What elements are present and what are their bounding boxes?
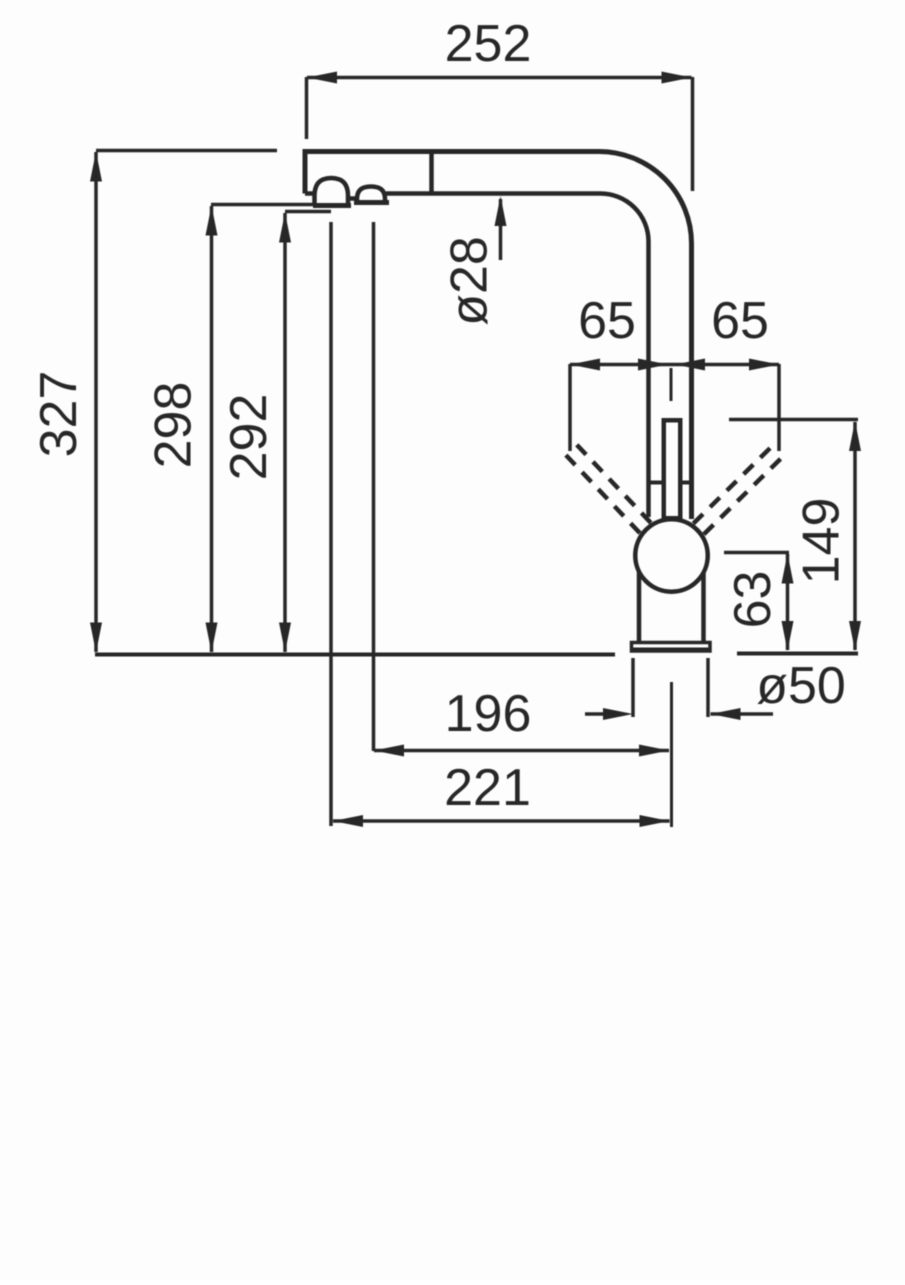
faucet spout inner profile (bottom edge, inner elbow, riser left edge) bbox=[386, 193, 649, 517]
dashed lever swung left bbox=[566, 445, 652, 534]
dia50 arrow right with leader bbox=[711, 712, 774, 716]
svg-text:65: 65 bbox=[711, 292, 769, 350]
svg-text:149: 149 bbox=[793, 498, 851, 585]
flange inner line bbox=[632, 648, 710, 650]
svg-text:65: 65 bbox=[578, 292, 636, 350]
svg-text:327: 327 bbox=[30, 371, 88, 458]
dim 149 ext top bbox=[729, 418, 858, 422]
centreline above lever bbox=[670, 368, 673, 401]
svg-text:292: 292 bbox=[220, 394, 278, 481]
bump connector bbox=[348, 196, 357, 201]
dia50 arrow left bbox=[585, 712, 605, 716]
deck line right bbox=[737, 652, 858, 656]
dim 63 line bbox=[786, 554, 790, 650]
dim 149 arrows bbox=[849, 421, 861, 651]
dim 327 line bbox=[94, 152, 98, 652]
dim 252 ext left bbox=[305, 77, 309, 139]
dim 298 ext top bbox=[211, 203, 313, 207]
dim 65 ext left bbox=[568, 364, 572, 451]
dashed lever swung right bbox=[692, 448, 780, 535]
dia50 extension line left bbox=[631, 658, 635, 717]
dim 298 line bbox=[210, 206, 214, 652]
bump large base bar bbox=[313, 203, 351, 208]
svg-text:252: 252 bbox=[445, 15, 532, 73]
svg-text:63: 63 bbox=[724, 571, 782, 629]
dim 292 ext top bbox=[285, 210, 331, 214]
dim 63 arrows bbox=[782, 554, 794, 652]
dim 63 ext top bbox=[724, 551, 789, 555]
dim 196 line bbox=[374, 749, 669, 753]
dim 221 line bbox=[333, 819, 670, 823]
dia50 extension line right bbox=[706, 658, 710, 717]
dim 221 arrows bbox=[333, 815, 670, 827]
dim 292 arrows bbox=[279, 213, 291, 653]
svg-text:ø28: ø28 bbox=[441, 236, 499, 326]
dim 252 ext right bbox=[691, 77, 695, 191]
dim 292 line bbox=[283, 213, 287, 652]
dia28 leader arrow bbox=[495, 196, 507, 226]
svg-text:298: 298 bbox=[145, 382, 203, 469]
svg-text:196: 196 bbox=[445, 685, 532, 743]
dim 252 line bbox=[307, 76, 692, 80]
dia28 leader line bbox=[499, 199, 503, 260]
deck line left bbox=[95, 653, 615, 657]
extension line from spray outlet (221) bbox=[329, 222, 333, 826]
dim 65-65 line bbox=[570, 363, 779, 367]
handle lever bbox=[664, 420, 681, 518]
extension line from spray control (196) bbox=[372, 222, 376, 751]
dim 65-65 arrows bbox=[570, 359, 779, 371]
dim 149 line bbox=[853, 422, 857, 650]
centreline below base bbox=[670, 682, 673, 827]
spray head bottom edge bbox=[305, 191, 314, 196]
pipe seam line bbox=[649, 481, 694, 485]
svg-text:ø50: ø50 bbox=[756, 657, 846, 715]
dim 65 ext right bbox=[777, 364, 781, 451]
dim 196 arrows bbox=[374, 745, 669, 757]
base flange bbox=[632, 643, 711, 652]
spray control bump large bbox=[315, 178, 349, 206]
dim 327 arrows bbox=[90, 152, 102, 653]
aerator cap divider bbox=[429, 152, 434, 192]
base body sides bbox=[637, 556, 642, 642]
dim 252 arrows bbox=[307, 72, 692, 84]
ball joint bbox=[635, 519, 708, 592]
dim 327 ext top bbox=[96, 149, 277, 153]
dim 298 arrows bbox=[206, 206, 218, 653]
faucet spout outer profile (top edge, elbow, riser right edge) bbox=[305, 152, 692, 520]
bump small base bar bbox=[354, 200, 389, 205]
spray control bump small bbox=[357, 187, 385, 203]
svg-text:221: 221 bbox=[444, 759, 531, 817]
